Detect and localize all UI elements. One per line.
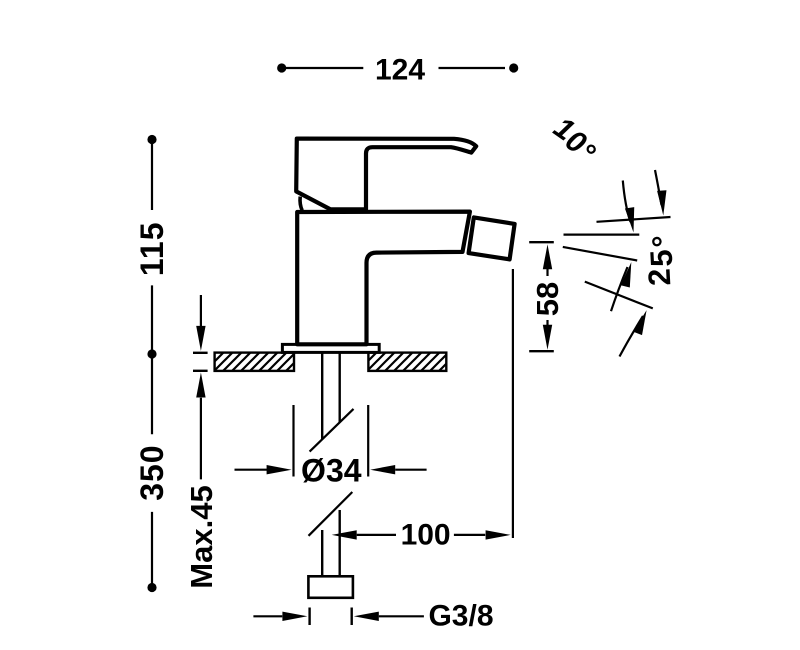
svg-text:350: 350 — [134, 444, 170, 500]
svg-text:58: 58 — [530, 282, 565, 316]
svg-text:2: 2 — [642, 268, 678, 287]
svg-text:100: 100 — [401, 518, 451, 551]
svg-text:124: 124 — [375, 53, 425, 86]
svg-text:Max.45: Max.45 — [184, 485, 219, 588]
svg-text:G3/8: G3/8 — [428, 600, 493, 633]
svg-text:115: 115 — [134, 221, 170, 276]
svg-text:°: ° — [645, 234, 681, 248]
svg-text:5: 5 — [643, 249, 679, 268]
svg-text:Ø34: Ø34 — [301, 453, 362, 489]
